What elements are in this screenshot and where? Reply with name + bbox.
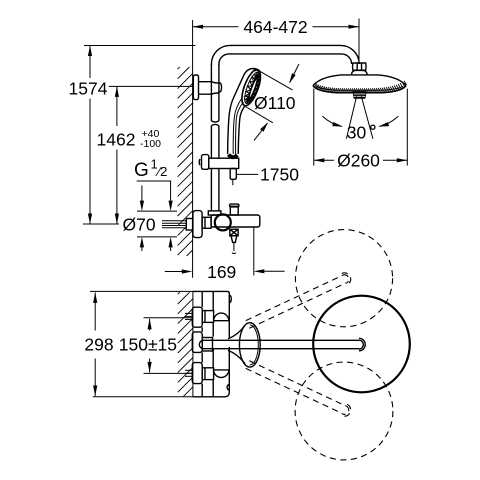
svg-text:464-472: 464-472: [243, 17, 307, 37]
svg-text:169: 169: [207, 262, 236, 282]
dimension Ø70: [123, 186, 178, 252]
dimension 464-472: [193, 17, 359, 62]
hose connector below holder: [230, 169, 236, 186]
svg-text:1750: 1750: [260, 164, 299, 184]
wall face line (top figure): [192, 20, 194, 278]
dashed swivel arm top: [245, 271, 353, 330]
shower arm (plan view): [199, 338, 365, 351]
svg-text:Ø110: Ø110: [254, 93, 296, 113]
thermostat valve body (side view): [208, 211, 260, 227]
svg-text:G: G: [134, 160, 149, 181]
valve body (plan view): [193, 291, 231, 396]
hand shower: [228, 67, 265, 154]
union nut (side view): [202, 217, 211, 228]
rain shower head (side view): [313, 75, 406, 86]
hand shower crimp: [229, 155, 238, 158]
label 1750 with leader: [237, 164, 299, 184]
dimension 298: [84, 291, 193, 396]
svg-text:150±15: 150±15: [119, 335, 177, 355]
supply pipe into wall: [162, 219, 193, 231]
rain head circle (plan view): [313, 296, 410, 393]
wall hatching (plan view): [178, 292, 193, 396]
middle rail mount (plan view): [202, 338, 212, 352]
svg-text:30: 30: [347, 123, 367, 143]
svg-text:1462: 1462: [97, 130, 136, 150]
in-wall supply pipes (plan view): [185, 313, 192, 376]
wall bracket and flange: [193, 75, 221, 100]
temperature knob: [215, 214, 231, 230]
hand shower bell (plan view): [228, 323, 260, 367]
wall face line (plan view): [192, 291, 194, 396]
spray face hatching: [314, 81, 406, 93]
ball joint nut: [351, 63, 367, 74]
svg-text:1: 1: [151, 157, 158, 172]
30 degree spray angle: [323, 96, 399, 142]
label G 1/2 with leader: [134, 157, 173, 252]
svg-text:1574: 1574: [69, 79, 108, 99]
svg-text:-100: -100: [140, 138, 161, 150]
shower arm arch: [211, 45, 359, 65]
dimension 1462 +40/-100: [97, 86, 194, 224]
dashed swivel arm bottom: [245, 359, 353, 418]
svg-text:Ø70: Ø70: [123, 215, 156, 235]
svg-text:298: 298: [84, 335, 113, 355]
dimension Ø110: [245, 64, 299, 141]
dimension 150 plus-minus 15: [119, 318, 192, 374]
dimension 169: [165, 228, 285, 282]
dimension 1574: [69, 46, 196, 225]
spray hub: [353, 92, 366, 99]
union nuts and domes (plan view): [202, 311, 229, 380]
dimension Ø260: [314, 89, 408, 171]
escutcheon (side view): [193, 211, 202, 238]
svg-text:Ø260: Ø260: [337, 151, 380, 171]
shower rail pipe: [211, 64, 219, 211]
swivel dashed circle bottom: [295, 362, 393, 460]
diverter and hose outlet: [230, 229, 238, 253]
swivel dashed circle top: [295, 230, 392, 327]
slider holder: [199, 155, 238, 170]
supply escutcheons (plan view): [192, 307, 202, 383]
extension line at supply centre: [83, 223, 119, 225]
outlet stub on valve: [230, 204, 239, 215]
wall hatching (top figure): [178, 67, 193, 256]
